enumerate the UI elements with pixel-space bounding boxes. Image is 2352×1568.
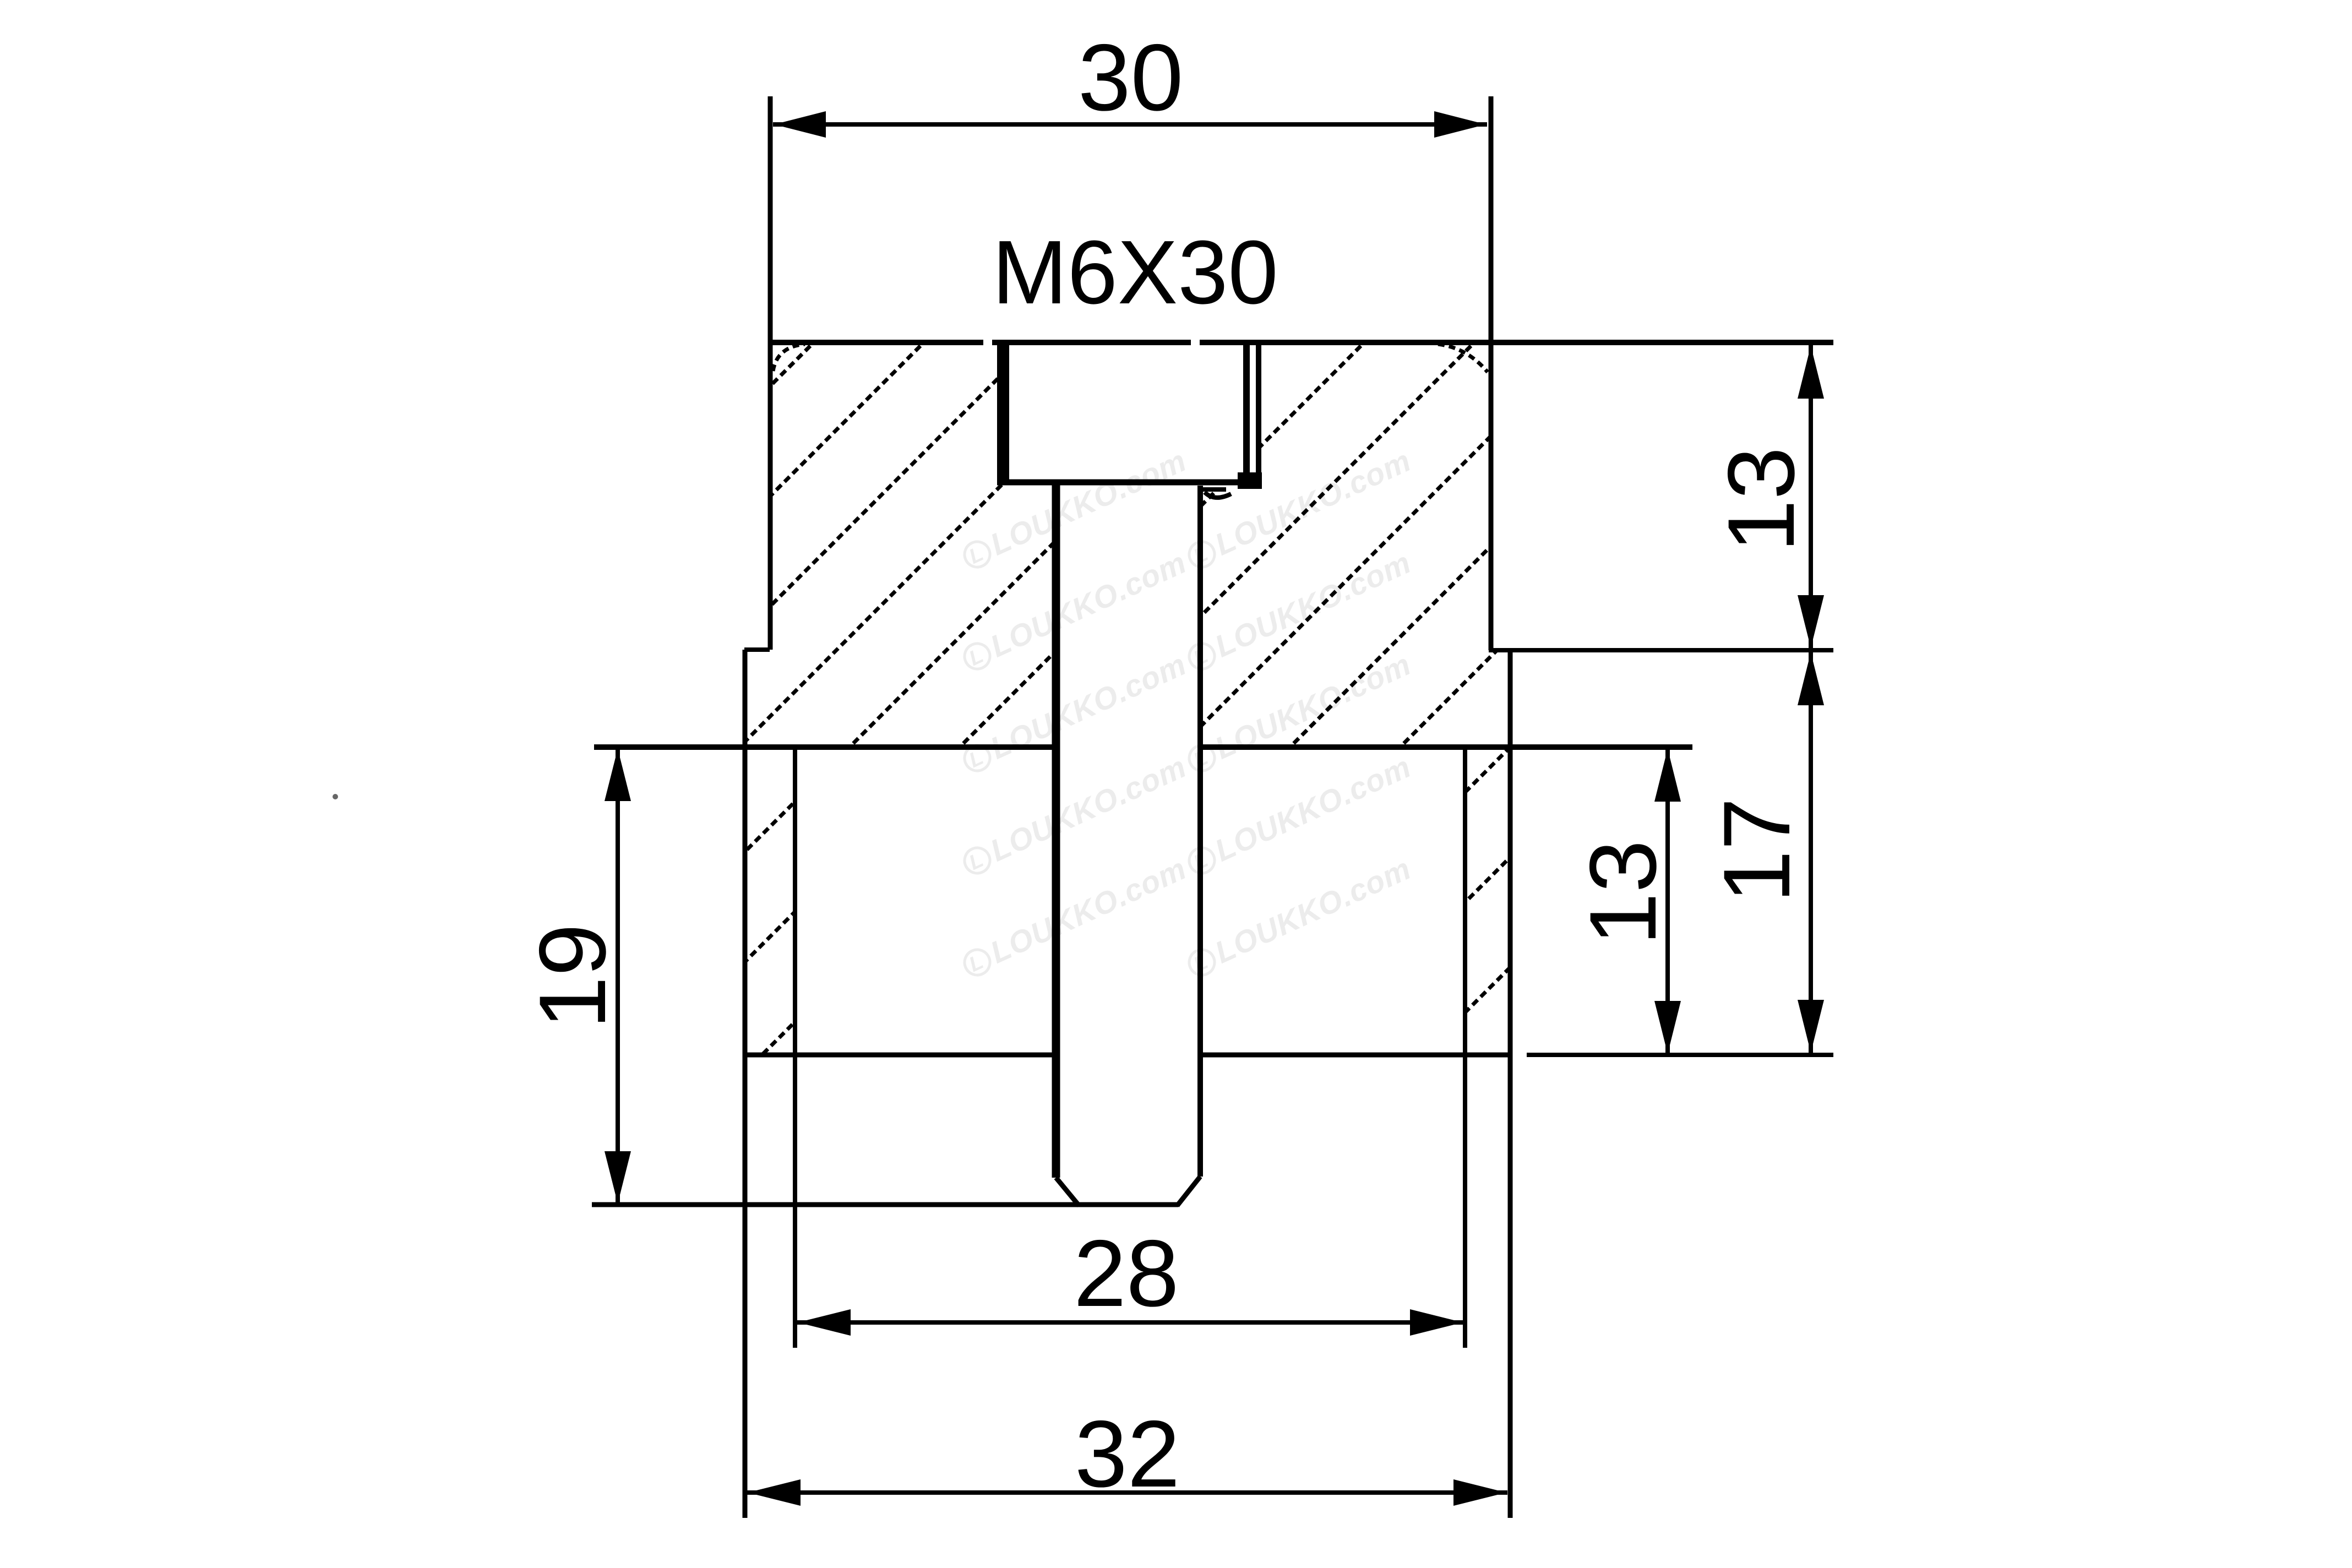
svg-text:LOUKKO.com: LOUKKO.com — [985, 851, 1191, 970]
inner bottom line left segment — [745, 1053, 1057, 1058]
watermark row1 col A — [958, 545, 1191, 676]
dimension line 30 — [773, 122, 1487, 127]
bolt head bottom — [997, 480, 1262, 486]
dim 28 left arrow — [798, 1309, 851, 1336]
dim inner 13 bottom arrow — [1654, 1001, 1681, 1054]
extension line right of dim 30 / upper plate right edge — [1489, 96, 1494, 650]
watermark row3 col B — [1183, 749, 1416, 880]
rounded hatch start top-left corner — [773, 344, 805, 371]
dim 17 top arrow — [1798, 652, 1824, 705]
dim inner 13 line — [1665, 750, 1670, 1053]
dim 17 bottom arrow — [1798, 1000, 1824, 1053]
dim 32 line — [747, 1490, 1507, 1495]
watermark row4 col A — [958, 851, 1191, 982]
plate/body boundary line right part with extension — [1201, 744, 1692, 750]
counterbore right wall — [1256, 344, 1261, 484]
dim 28 right arrow — [1410, 1309, 1463, 1336]
outer right edge of lower body — [1508, 650, 1513, 1518]
bolt shank left edge — [1052, 483, 1060, 1178]
dim 32 right arrow — [1453, 1479, 1506, 1506]
svg-text:LOUKKO.com: LOUKKO.com — [985, 545, 1191, 663]
watermark row4 col B — [1183, 851, 1416, 982]
dim 30 right arrow — [1434, 111, 1486, 138]
inner bottom extension line to right dims — [1527, 1053, 1833, 1057]
svg-text:13: 13 — [1570, 840, 1676, 945]
watermark row1 col B — [1183, 545, 1416, 676]
watermark row0 col A — [958, 443, 1191, 574]
right step of upper plate with extension line — [1489, 648, 1833, 652]
counterbore bottom right of shank — [1201, 487, 1226, 492]
watermark row2 col A — [958, 646, 1191, 778]
bolt tip right chamfer — [1177, 1177, 1200, 1206]
counterbore bottom fillet — [1205, 492, 1231, 498]
svg-text:LOUKKO.com: LOUKKO.com — [1210, 749, 1416, 868]
bolt head right edge — [1243, 342, 1250, 483]
dim 13 upper bottom arrow — [1798, 595, 1824, 648]
plate/body boundary line left part with 19 extension — [594, 744, 1055, 750]
dim 30 left arrow — [774, 111, 826, 138]
svg-text:32: 32 — [1075, 1401, 1180, 1507]
bolt tip left chamfer — [1056, 1178, 1079, 1206]
svg-text:13: 13 — [1708, 447, 1814, 552]
svg-text:M6X30: M6X30 — [992, 222, 1278, 323]
bolt head left wall in counterbore — [997, 342, 1009, 483]
dim 19 top arrow — [605, 749, 631, 801]
inner right edge of lower body — [1463, 747, 1467, 1348]
watermark row3 col A — [958, 749, 1191, 880]
dim 28 line — [797, 1320, 1464, 1325]
rounded hatch start top-right corner — [1438, 344, 1488, 372]
dim inner 13 top arrow — [1654, 749, 1681, 802]
stray dot artifact — [333, 794, 338, 799]
dim 19 line — [616, 750, 620, 1202]
dim 13 upper top arrow — [1798, 346, 1824, 399]
bolt shank right edge — [1197, 486, 1203, 1177]
svg-text:LOUKKO.com: LOUKKO.com — [1210, 545, 1416, 663]
left step of upper plate — [744, 647, 770, 652]
svg-text:LOUKKO.com: LOUKKO.com — [985, 443, 1191, 562]
outer left edge of lower body — [743, 650, 748, 1518]
svg-text:LOUKKO.com: LOUKKO.com — [985, 749, 1191, 868]
svg-text:28: 28 — [1074, 1221, 1179, 1326]
bottom line of lower body with 19 extension — [592, 1202, 1178, 1207]
dim line column for 13 and 17 at right — [1809, 345, 1813, 1055]
svg-text:17: 17 — [1704, 798, 1810, 903]
extension line left of dim 30 / upper plate left edge — [768, 96, 773, 650]
dim 32 left arrow — [748, 1479, 801, 1506]
inner left edge of lower body — [793, 747, 797, 1348]
inner bottom line right segment — [1199, 1053, 1511, 1058]
svg-text:30: 30 — [1078, 25, 1183, 130]
svg-text:19: 19 — [520, 924, 625, 1029]
small gaps in top edge at bolt head — [983, 336, 992, 349]
dim 19 bottom arrow — [605, 1151, 631, 1204]
watermark row2 col B — [1183, 646, 1416, 778]
svg-text:LOUKKO.com: LOUKKO.com — [1210, 851, 1416, 970]
upper plate top edge with extension to right dim — [770, 340, 1833, 345]
watermark row0 col B — [1183, 443, 1416, 574]
